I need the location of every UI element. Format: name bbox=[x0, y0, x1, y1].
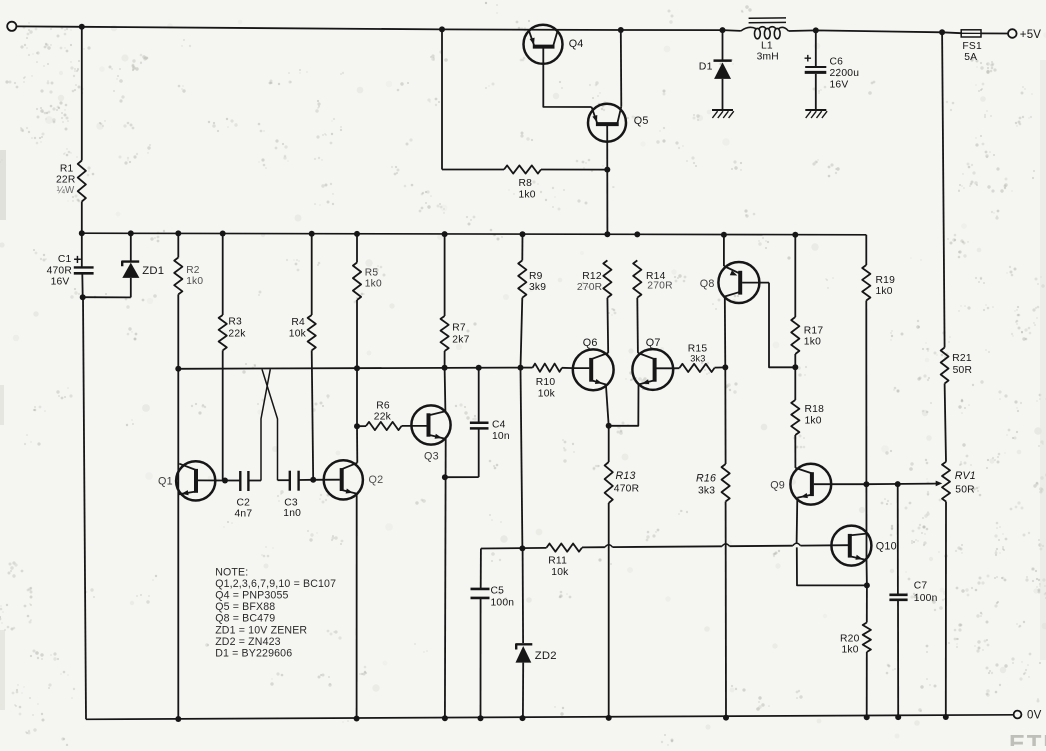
svg-text:+5V: +5V bbox=[1020, 29, 1042, 41]
svg-text:C4: C4 bbox=[492, 420, 506, 431]
svg-text:Q5: Q5 bbox=[634, 115, 649, 127]
wire crossover diag to C3 bbox=[262, 369, 278, 480]
wire Q5 collector to top rail bbox=[620, 30, 623, 106]
wire Q9 base to C7/RV1 bbox=[866, 481, 934, 487]
wire Q3 emitter to C4 bottom bbox=[445, 476, 479, 478]
svg-text:1n0: 1n0 bbox=[283, 508, 301, 519]
wire Q10 collector/emitter line bbox=[865, 484, 868, 585]
wire C1/ZD1 bottom to 0V rail bbox=[80, 294, 131, 719]
resistor R8 bbox=[442, 165, 607, 200]
resistor R2 bbox=[174, 258, 203, 295]
wire R9 to bus bbox=[521, 298, 523, 368]
wire R19 branch (corner of rail) bbox=[865, 235, 867, 265]
svg-text:R13: R13 bbox=[616, 470, 636, 482]
transistor Q5 bbox=[588, 104, 649, 142]
resistor R1 bbox=[56, 161, 86, 202]
node R11/ZD2 junction bbox=[519, 545, 525, 551]
node second rail junctions bbox=[79, 230, 799, 238]
svg-text:R19: R19 bbox=[876, 275, 896, 286]
svg-text:C2: C2 bbox=[237, 498, 251, 509]
svg-text:4n7: 4n7 bbox=[235, 508, 253, 519]
wire R3 to Q1 base bbox=[222, 350, 224, 480]
wire +10V rail (second rail) bbox=[82, 233, 867, 235]
svg-text:C6: C6 bbox=[830, 57, 844, 68]
svg-text:Q8 = BC479: Q8 = BC479 bbox=[215, 613, 275, 625]
resistor R20 bbox=[840, 585, 871, 655]
svg-text:3k3: 3k3 bbox=[690, 354, 705, 364]
wire R17 branch bbox=[794, 235, 796, 317]
svg-text:22R: 22R bbox=[56, 175, 76, 186]
node Q2 base junction bbox=[310, 477, 316, 483]
terminal input (left) bbox=[7, 22, 16, 31]
svg-text:R5: R5 bbox=[365, 268, 379, 279]
svg-text:R7: R7 bbox=[452, 323, 466, 334]
wire Q2 collector up bbox=[356, 426, 358, 463]
resistor R21 bbox=[941, 348, 972, 384]
svg-text:100n: 100n bbox=[491, 598, 515, 609]
wire R12 to Q6 collector bbox=[606, 298, 609, 353]
capacitor C3 bbox=[278, 471, 314, 519]
terminal 0V (right) bbox=[1014, 709, 1042, 721]
svg-text:Q3: Q3 bbox=[424, 451, 439, 463]
wire down to R11 node bbox=[521, 368, 523, 549]
svg-text:1k0: 1k0 bbox=[876, 286, 893, 297]
svg-text:1k0: 1k0 bbox=[804, 337, 821, 348]
transistor Q7 bbox=[632, 337, 673, 390]
node bottom rail junctions bbox=[175, 714, 949, 722]
svg-text:50R: 50R bbox=[955, 484, 975, 495]
wire R21 branch from top rail bbox=[942, 32, 945, 347]
resistor R15 bbox=[673, 344, 725, 373]
ground under C6 bbox=[805, 110, 827, 118]
svg-text:100n: 100n bbox=[914, 593, 938, 604]
wire R7 bottom bbox=[444, 351, 446, 368]
svg-text:+: + bbox=[74, 252, 82, 267]
resistor R17 bbox=[791, 317, 823, 354]
potentiometer RV1 bbox=[935, 462, 976, 502]
transistor Q2 bbox=[313, 460, 383, 499]
svg-text:3k9: 3k9 bbox=[529, 282, 546, 293]
svg-text:R8: R8 bbox=[519, 178, 533, 189]
wire +V input top rail bbox=[16, 26, 1008, 33]
svg-text:Q10: Q10 bbox=[876, 541, 897, 553]
svg-text:1k0: 1k0 bbox=[519, 190, 536, 201]
node top rail junctions bbox=[79, 24, 945, 36]
transistor Q9 bbox=[770, 464, 866, 505]
capacitor C2 bbox=[225, 471, 261, 519]
svg-text:¼W: ¼W bbox=[57, 185, 75, 196]
svg-text:R1: R1 bbox=[60, 164, 74, 175]
svg-text:R11: R11 bbox=[548, 556, 567, 567]
inductor L1 bbox=[741, 18, 789, 63]
svg-text:10k: 10k bbox=[551, 567, 569, 578]
wire Q8 emitter from rail bbox=[723, 235, 725, 266]
svg-text:NOTE:: NOTE: bbox=[215, 566, 248, 578]
resistor R18 bbox=[791, 367, 824, 435]
zener diode ZD1 bbox=[122, 233, 164, 297]
svg-text:ZD2: ZD2 bbox=[535, 650, 557, 662]
wire R1 branch top bbox=[81, 27, 83, 161]
svg-text:ZD1 = 10V ZENER: ZD1 = 10V ZENER bbox=[215, 624, 307, 636]
wire R16 to 0V (hops R11) bbox=[725, 502, 727, 718]
svg-text:R20: R20 bbox=[840, 634, 860, 645]
svg-text:ZD1: ZD1 bbox=[142, 265, 164, 277]
wire R2 to Q1 collector line bbox=[175, 294, 181, 719]
svg-text:R6: R6 bbox=[376, 401, 390, 412]
wire Q8 base to R17/R18 node bbox=[769, 283, 798, 371]
resistor R4 bbox=[289, 234, 316, 351]
capacitor C5 bbox=[471, 549, 515, 719]
wire R5 branch bbox=[356, 234, 358, 263]
svg-text:R12: R12 bbox=[582, 271, 602, 282]
resistor R3 bbox=[219, 315, 247, 350]
svg-text:R3: R3 bbox=[228, 317, 242, 328]
resistor R11 bbox=[481, 543, 848, 578]
svg-text:Q4: Q4 bbox=[569, 38, 584, 50]
wire RV1 to 0V bbox=[945, 502, 947, 718]
svg-text:C3: C3 bbox=[284, 497, 298, 508]
svg-text:D1: D1 bbox=[699, 61, 713, 73]
capacitor C6 bbox=[804, 30, 859, 109]
wire R4 to Q2 base bbox=[312, 350, 314, 479]
resistor R12 bbox=[577, 260, 612, 297]
wire R21 to RV1 bbox=[945, 384, 946, 462]
svg-text:Q9: Q9 bbox=[770, 479, 785, 491]
svg-text:1k0: 1k0 bbox=[805, 416, 822, 427]
note text block bbox=[215, 566, 336, 659]
terminal +5V bbox=[1008, 29, 1041, 41]
resistor R16 bbox=[696, 297, 730, 502]
capacitor C1 bbox=[47, 233, 94, 297]
transistor Q6 bbox=[573, 337, 614, 390]
wire R8 branch from rail bbox=[441, 29, 443, 169]
svg-text:1k0: 1k0 bbox=[186, 276, 203, 287]
resistor R7 bbox=[441, 316, 470, 351]
svg-text:10k: 10k bbox=[289, 329, 307, 340]
wire R3 branch bbox=[222, 234, 224, 316]
resistor R14 bbox=[633, 260, 673, 297]
wire R17 bottom bbox=[794, 354, 796, 367]
svg-text:D1 = BY229606: D1 = BY229606 bbox=[215, 648, 292, 660]
svg-text:Q2: Q2 bbox=[369, 474, 384, 486]
svg-text:5A: 5A bbox=[964, 52, 977, 63]
svg-text:470R: 470R bbox=[614, 484, 639, 495]
ground under D1 bbox=[712, 110, 734, 118]
capacitor C4 bbox=[470, 368, 510, 477]
wire R7 branch bbox=[444, 234, 446, 316]
svg-text:R9: R9 bbox=[529, 271, 543, 282]
svg-text:10n: 10n bbox=[492, 431, 510, 442]
wire Q7 emitter down bbox=[609, 385, 639, 426]
node junctions on y=368 bus bbox=[354, 365, 524, 372]
transistor Q1 bbox=[158, 461, 225, 500]
wire R14 to Q7 collector bbox=[636, 298, 639, 353]
svg-text:Q6: Q6 bbox=[583, 337, 598, 349]
svg-text:1k0: 1k0 bbox=[842, 645, 859, 656]
wire R2 branch bbox=[177, 233, 179, 257]
zener diode ZD2 bbox=[516, 548, 557, 718]
resistor R19 bbox=[862, 265, 895, 301]
node Q9 base / R19 junction bbox=[863, 481, 869, 487]
svg-text:Q4 = PNP3055: Q4 = PNP3055 bbox=[215, 590, 288, 602]
resistor R10 bbox=[521, 364, 574, 400]
svg-text:3k3: 3k3 bbox=[698, 486, 715, 497]
svg-text:C1: C1 bbox=[58, 254, 72, 265]
diode D1 bbox=[699, 30, 732, 109]
svg-text:FS1: FS1 bbox=[962, 41, 982, 52]
svg-text:R4: R4 bbox=[291, 317, 305, 328]
wire R13 to 0V (hops R11) bbox=[608, 503, 610, 718]
wire Q3 emitter down to 0V bbox=[442, 439, 448, 718]
wire Q5 base down bbox=[604, 126, 610, 234]
wire Q9 emitter down (hops R11) bbox=[797, 498, 870, 589]
svg-text:10k: 10k bbox=[538, 389, 556, 400]
watermark ETI bottom right bbox=[1009, 731, 1046, 751]
wire Q2 emitter to 0V bbox=[356, 494, 358, 719]
wire collector bus y=368 bbox=[178, 368, 520, 369]
svg-text:RV1: RV1 bbox=[955, 470, 976, 482]
svg-text:Q1: Q1 bbox=[158, 475, 173, 487]
svg-text:ETI: ETI bbox=[1009, 731, 1046, 747]
svg-text:Q8: Q8 bbox=[700, 278, 715, 290]
svg-text:22k: 22k bbox=[228, 328, 246, 339]
svg-text:22k: 22k bbox=[374, 412, 392, 423]
wire R20 to 0V bbox=[866, 652, 868, 717]
svg-text:R18: R18 bbox=[805, 404, 825, 415]
svg-text:2k7: 2k7 bbox=[452, 335, 469, 346]
svg-text:0V: 0V bbox=[1027, 709, 1042, 721]
svg-text:50R: 50R bbox=[953, 365, 973, 376]
svg-text:+: + bbox=[804, 51, 812, 66]
capacitor C7 bbox=[889, 484, 937, 717]
svg-text:16V: 16V bbox=[51, 277, 70, 288]
wire R1 to rail bbox=[81, 202, 83, 234]
svg-text:R2: R2 bbox=[186, 265, 200, 276]
transistor Q8 bbox=[700, 262, 769, 303]
svg-text:L1: L1 bbox=[761, 41, 773, 52]
resistor R6 bbox=[357, 401, 403, 431]
resistor R5 bbox=[353, 263, 382, 301]
wire node A down to R6/Q2 bbox=[354, 368, 360, 429]
svg-text:Q1,2,3,6,7,9,10 = BC107: Q1,2,3,6,7,9,10 = BC107 bbox=[215, 578, 336, 590]
transistor Q4 bbox=[524, 25, 592, 107]
svg-text:2200u: 2200u bbox=[830, 68, 860, 79]
svg-text:C7: C7 bbox=[914, 581, 928, 592]
wire crossover diag to C2 bbox=[261, 369, 270, 480]
svg-text:16V: 16V bbox=[830, 80, 849, 91]
wire R7/Q3 collector line bbox=[444, 368, 447, 412]
svg-text:470R: 470R bbox=[47, 266, 72, 277]
node R15/R16/Q8-collector junction bbox=[722, 364, 728, 370]
svg-text:1k0: 1k0 bbox=[365, 279, 382, 290]
transistor Q10 bbox=[831, 526, 896, 566]
resistor R9 bbox=[518, 234, 546, 298]
wire R18 to Q9 collector bbox=[794, 435, 796, 468]
svg-text:270R: 270R bbox=[647, 281, 672, 292]
svg-text:3mH: 3mH bbox=[757, 52, 779, 63]
resistor R13 bbox=[605, 426, 640, 503]
wire R19 down to Q9 base node bbox=[865, 301, 867, 485]
svg-text:R17: R17 bbox=[804, 326, 824, 337]
svg-text:ZD2 = ZN423: ZD2 = ZN423 bbox=[215, 636, 281, 648]
svg-text:270R: 270R bbox=[577, 282, 602, 293]
svg-text:C5: C5 bbox=[491, 586, 505, 597]
wire R5 to node A bbox=[356, 300, 358, 368]
node Q1 base junction bbox=[222, 478, 228, 484]
svg-text:Q5 = BFX88: Q5 = BFX88 bbox=[215, 601, 275, 613]
svg-text:R21: R21 bbox=[952, 353, 972, 364]
svg-text:Q7: Q7 bbox=[646, 337, 661, 349]
transistor Q3 bbox=[403, 405, 451, 462]
svg-text:R10: R10 bbox=[536, 377, 556, 388]
wire 0V bottom rail bbox=[86, 715, 1014, 720]
fuse FS1 bbox=[961, 30, 982, 63]
svg-text:R16: R16 bbox=[696, 473, 716, 485]
wire Q6 emitter down bbox=[606, 385, 612, 429]
